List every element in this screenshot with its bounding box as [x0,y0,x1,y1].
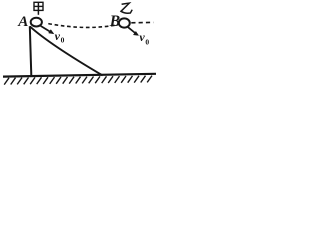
label jia (甲) drawn as strokes [34,2,43,15]
label yi (乙) drawn as strokes [121,3,132,13]
svg-text:0: 0 [145,37,149,46]
ball B (circle) [119,18,130,27]
ball A (circle) [31,18,42,27]
dashed line right of B [131,21,153,23]
ground hatching [4,76,152,85]
background [0,0,168,98]
svg-text:0: 0 [61,35,65,44]
velocity arrow at A [41,26,54,34]
dashed trajectory line from A to B (slight sag) [48,24,117,28]
wedge vertical side [30,26,32,75]
ground line [3,74,156,77]
svg-text:A: A [17,13,28,30]
wedge hypotenuse [30,26,103,75]
velocity arrow at B [128,27,139,35]
